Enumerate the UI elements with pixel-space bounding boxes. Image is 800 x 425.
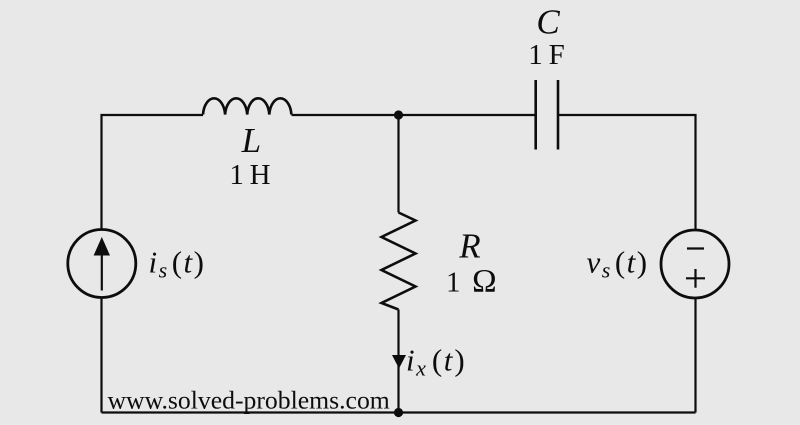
wire middle vertical top (node A to resistor) <box>397 115 399 213</box>
svg-text:1 Ω: 1 Ω <box>446 264 497 300</box>
svg-text:1 H: 1 H <box>229 159 270 191</box>
wire middle vertical bottom (resistor to bottom node) <box>397 310 399 413</box>
wire top right (capacitor to top-right corner, down to voltage source) <box>558 115 696 230</box>
svg-text:C: C <box>536 3 560 42</box>
node A junction dot <box>394 110 403 119</box>
wire top (node A to capacitor) <box>399 114 536 116</box>
current source U1 circle <box>68 230 136 298</box>
resistor R1 zigzag <box>382 213 416 310</box>
wire top middle (inductor to node A) <box>292 114 399 116</box>
voltage source minus sign <box>687 247 704 249</box>
voltage source U2 circle <box>661 230 729 298</box>
svg-text:R: R <box>458 227 480 266</box>
current source arrow <box>94 237 110 291</box>
inductor L1 <box>203 98 291 114</box>
voltage source plus sign <box>686 269 705 288</box>
svg-text:www.solved-problems.com: www.solved-problems.com <box>108 386 390 415</box>
wire left vertical top (top-left corner to current source) <box>102 115 204 230</box>
svg-text:L: L <box>241 121 261 160</box>
capacitor C1 left plate <box>534 80 537 150</box>
svg-text:vs(t): vs(t) <box>587 245 648 283</box>
capacitor C1 right plate <box>557 80 560 150</box>
wire right vertical bottom (voltage source to bottom-right corner) <box>694 298 696 413</box>
svg-text:1 F: 1 F <box>528 39 564 71</box>
bottom node junction dot <box>394 408 403 417</box>
wire bottom horizontal <box>102 411 696 413</box>
current arrow ix on middle wire <box>392 355 406 369</box>
svg-text:is(t): is(t) <box>149 245 204 283</box>
wire left vertical bottom (current source to bottom-left corner) <box>100 298 102 413</box>
